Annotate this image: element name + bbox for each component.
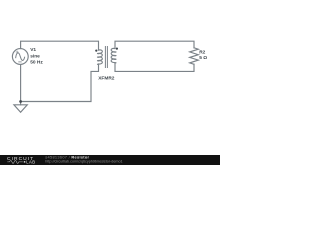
svg-text:R2: R2 bbox=[199, 49, 205, 55]
svg-text:V1: V1 bbox=[30, 47, 36, 53]
phase dot primary bbox=[95, 50, 97, 52]
junction node dot bbox=[19, 100, 22, 103]
wire top-right from XFMR2 to R2 bbox=[115, 41, 194, 48]
wire bottom rail right loop bbox=[115, 63, 194, 71]
wire V1 bottom to node bbox=[20, 65, 22, 105]
V1 plus sign bbox=[16, 51, 18, 53]
footer bar bbox=[0, 155, 220, 165]
wire top-left from V1 to XFMR2 bbox=[21, 41, 99, 50]
ground symbol bbox=[14, 105, 27, 113]
svg-text:sine: sine bbox=[30, 53, 40, 59]
CircuitLab logo dot bbox=[24, 161, 26, 163]
svg-text:5 Ω: 5 Ω bbox=[199, 55, 207, 61]
V1 sine wave bbox=[16, 53, 25, 61]
transformer core lines bbox=[105, 47, 107, 68]
voltage source V1 circle bbox=[12, 49, 28, 65]
svg-text:50 Hz: 50 Hz bbox=[30, 60, 43, 66]
V1 minus sign bbox=[19, 61, 22, 63]
phase dot secondary bbox=[116, 48, 118, 50]
svg-text:XFMR2: XFMR2 bbox=[98, 75, 115, 81]
svg-text:http://circuitlab.com/c/q6cyph: http://circuitlab.com/c/q6cyph9b/resisto… bbox=[45, 159, 122, 163]
CircuitLab logo wave bbox=[7, 160, 22, 163]
transformer XFMR2 primary winding bbox=[97, 50, 102, 65]
svg-text:LAB: LAB bbox=[26, 159, 35, 164]
resistor R2 zigzag bbox=[190, 48, 199, 65]
transformer XFMR2 secondary winding bbox=[111, 48, 116, 63]
wire bottom rail left loop bbox=[21, 64, 99, 102]
